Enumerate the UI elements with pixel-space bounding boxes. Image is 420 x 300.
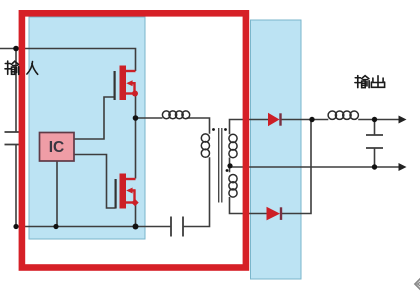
- svg-text:IC: IC: [49, 139, 65, 156]
